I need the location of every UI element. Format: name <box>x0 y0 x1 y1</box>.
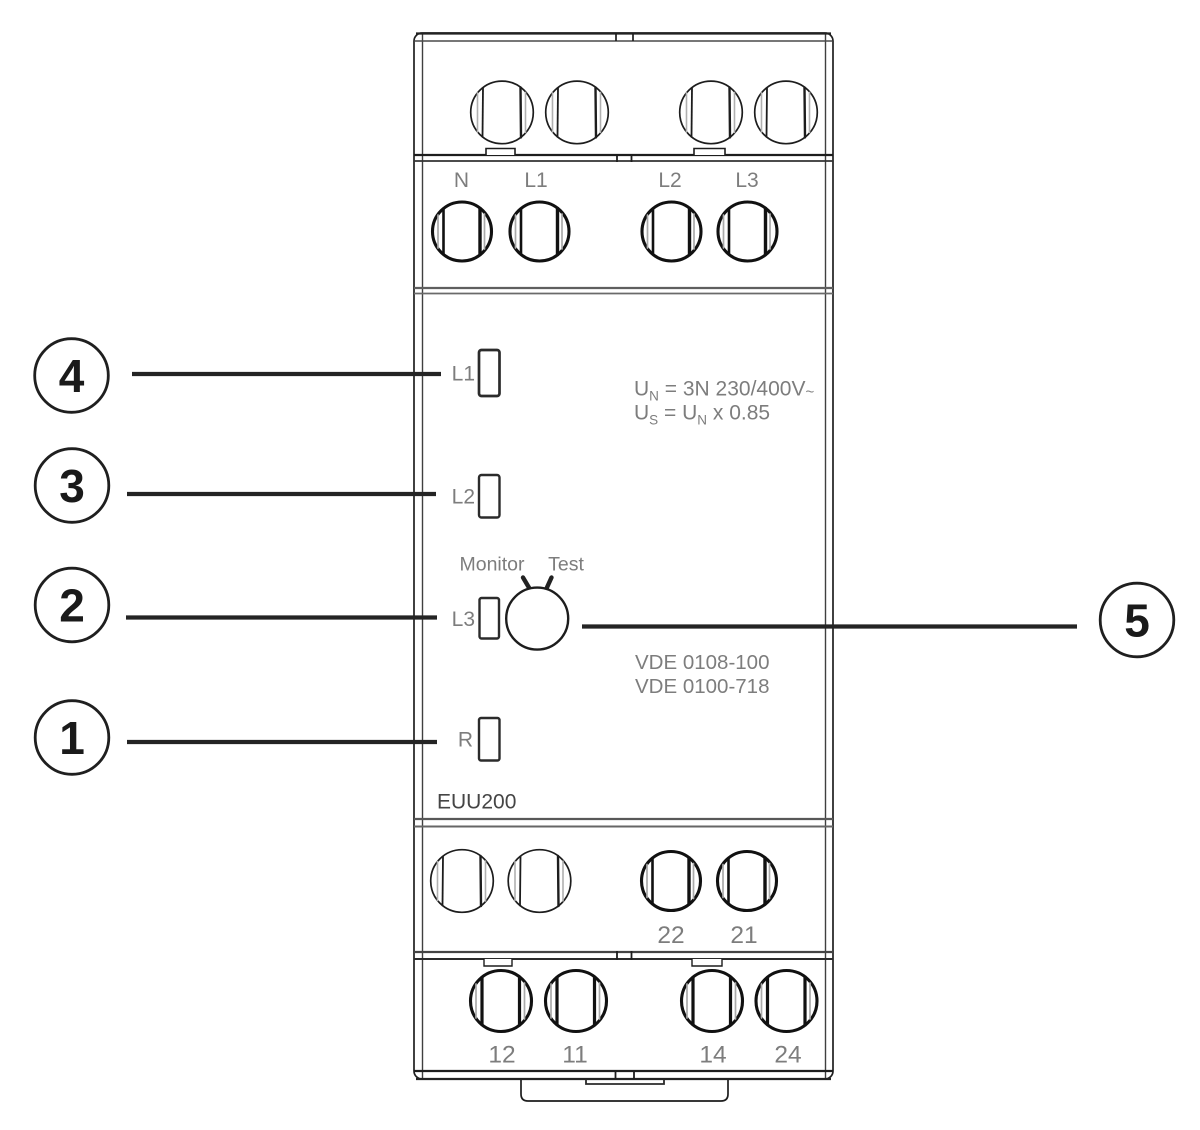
svg-text:VDE 0108-100: VDE 0108-100 <box>635 651 769 674</box>
separator 2 upper <box>414 287 833 289</box>
svg-text:UN = 3N 230/400V~: UN = 3N 230/400V~ <box>634 378 814 404</box>
relay terminal screw 21 <box>718 852 777 911</box>
terminal screw L3 <box>718 202 777 261</box>
DIN rail slider <box>586 1080 664 1085</box>
svg-text:L3: L3 <box>735 169 758 192</box>
svg-text:EUU200: EUU200 <box>437 791 516 814</box>
callout circle 3 <box>35 449 109 523</box>
wire entry tab bottom left <box>484 959 512 966</box>
terminal screw L2 <box>642 202 701 261</box>
pointer tick Test <box>547 578 552 589</box>
DIN rail tab <box>521 1080 728 1101</box>
wire entry tab bottom right <box>692 959 722 966</box>
svg-text:4: 4 <box>59 350 85 402</box>
svg-text:11: 11 <box>562 1042 587 1069</box>
device body outline <box>414 33 833 1079</box>
mould seam ticks separator 4 <box>616 951 618 960</box>
callout circle 4 <box>35 339 109 413</box>
relay terminal screw b (thin) <box>508 850 571 913</box>
LED R <box>479 718 500 761</box>
LED L2 <box>479 475 500 518</box>
bottom terminal screw 11 <box>546 971 607 1032</box>
leader line 3 <box>127 492 436 496</box>
svg-text:22: 22 <box>657 922 684 949</box>
leader line 1 <box>127 740 437 744</box>
top inner line <box>415 40 832 42</box>
svg-text:R: R <box>458 729 473 752</box>
bottom inner line <box>414 1070 833 1072</box>
LED L1 <box>479 350 500 396</box>
mould seam ticks bottom edge <box>615 1071 617 1079</box>
svg-text:L1: L1 <box>524 169 547 192</box>
svg-text:Test: Test <box>548 554 584 576</box>
svg-text:VDE 0100-718: VDE 0100-718 <box>635 675 769 698</box>
relay terminal screw a (thin) <box>431 850 494 913</box>
bottom terminal screw 12 <box>471 971 532 1032</box>
svg-text:1: 1 <box>59 712 85 764</box>
bottom terminal screw 24 <box>756 971 817 1032</box>
test button <box>506 588 568 650</box>
leader line 2 <box>126 615 437 619</box>
svg-text:L3: L3 <box>452 608 475 631</box>
LED L3 <box>480 598 500 639</box>
separator 1 upper <box>414 154 833 156</box>
svg-text:L2: L2 <box>658 169 681 192</box>
top edge overdraw <box>416 32 831 34</box>
leader line 4 <box>132 372 441 376</box>
top row screw 1 <box>471 81 534 144</box>
inner right wall <box>825 34 827 1078</box>
terminal screw L1 <box>510 202 569 261</box>
bottom terminal screw 14 <box>682 971 743 1032</box>
inner left wall <box>422 34 424 1078</box>
svg-text:N: N <box>454 169 469 192</box>
wire entry tab top left <box>486 149 515 156</box>
svg-text:14: 14 <box>699 1042 726 1069</box>
mould seam ticks separator 1 <box>616 154 618 162</box>
svg-text:L2: L2 <box>452 486 475 509</box>
top row screw 4 <box>755 81 818 144</box>
svg-text:L1: L1 <box>452 363 475 386</box>
svg-text:5: 5 <box>1124 595 1150 647</box>
separator 4 upper <box>414 951 833 953</box>
callout circle 2 <box>35 568 109 642</box>
relay terminal screw 22 <box>642 852 701 911</box>
svg-text:2: 2 <box>59 580 85 632</box>
separator 4 lower <box>414 958 833 960</box>
svg-text:21: 21 <box>730 922 757 949</box>
bottom edge overdraw <box>416 1078 831 1080</box>
callout circle 1 <box>35 701 109 775</box>
separator 3 lower <box>414 826 833 828</box>
svg-text:24: 24 <box>774 1042 801 1069</box>
svg-text:Monitor: Monitor <box>459 554 525 576</box>
callout circle 5 <box>1100 583 1174 657</box>
separator 3 upper <box>414 818 833 820</box>
top row screw 3 <box>680 81 743 144</box>
leader line 5 <box>582 624 1077 628</box>
mould seam ticks top edge <box>615 33 617 41</box>
terminal screw N <box>433 202 492 261</box>
svg-text:3: 3 <box>59 460 85 512</box>
pointer tick Monitor <box>523 578 530 589</box>
wire entry tab top right <box>694 149 725 156</box>
separator 1 lower <box>414 160 833 162</box>
top row screw 2 <box>546 81 609 144</box>
separator 2 lower <box>414 293 833 295</box>
svg-text:12: 12 <box>488 1042 515 1069</box>
